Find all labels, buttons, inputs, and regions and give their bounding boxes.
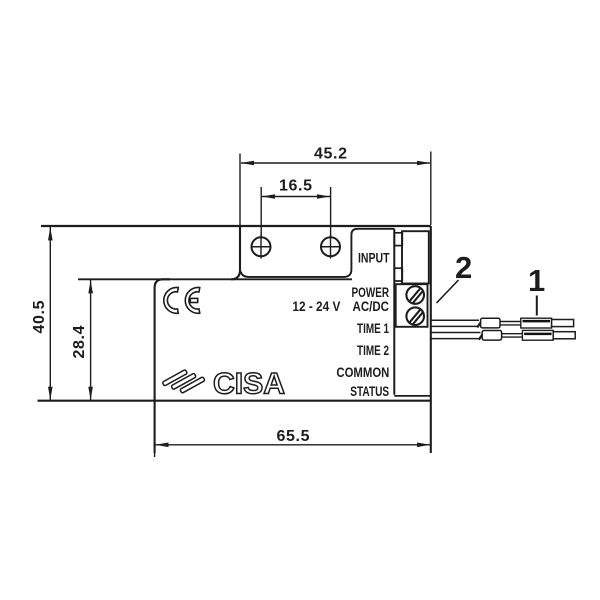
wire 1 break slash: [477, 319, 483, 327]
svg-text:12 - 24 V: 12 - 24 V: [292, 299, 340, 314]
CE mark E bar: [190, 298, 197, 302]
dimension 65.5 arrows: [155, 443, 168, 448]
top edge line with left extension: [41, 225, 431, 227]
CISA flag stripe 3: [180, 377, 205, 394]
svg-text:28.4: 28.4: [71, 325, 88, 358]
dimension 16.5 line: [261, 187, 330, 237]
wire 2 neck: [502, 334, 523, 337]
svg-text:CISA: CISA: [213, 368, 285, 401]
lower body top edge with left extension: [78, 278, 352, 280]
body right edge (extended down as 65.5 extension): [430, 226, 432, 453]
svg-text:INPUT: INPUT: [358, 250, 390, 265]
label column line: [393, 229, 395, 395]
wire 2 break slash: [479, 331, 485, 339]
svg-text:STATUS: STATUS: [350, 384, 389, 399]
dimension 40.5 line: [49, 227, 51, 400]
svg-text:AC/DC: AC/DC: [353, 299, 390, 314]
leader line for label 2: [437, 280, 459, 303]
terminal screw A: [406, 286, 424, 304]
CE mark C: [164, 288, 179, 314]
wire 2 plain segment: [431, 333, 481, 339]
dimension 28.4 line: [90, 280, 92, 400]
wire 1 ferrule: [481, 318, 500, 328]
bottom edge with left extension: [38, 400, 431, 402]
terminal screw B: [406, 307, 424, 325]
terminal block: [396, 284, 428, 327]
svg-text:2: 2: [455, 250, 472, 285]
leader line for label 1: [536, 296, 538, 316]
socket pin bottom: [394, 268, 402, 281]
wire 1 connector dark bar: [523, 320, 551, 323]
socket pin top: [394, 233, 402, 246]
screw hole right: [321, 237, 340, 256]
svg-text:65.5: 65.5: [277, 428, 310, 445]
CISA flag stripe 2: [171, 373, 196, 390]
wire 2 tail: [553, 332, 575, 339]
dimension 16.5 arrows: [262, 194, 275, 199]
screw hole left: [252, 237, 271, 256]
wire 2 ferrule: [482, 331, 501, 341]
dimension 65.5 line: [155, 408, 430, 458]
CE mark E: [185, 288, 200, 314]
wire 2 connector dark bar: [524, 333, 552, 336]
wire 1 neck: [500, 322, 522, 325]
bottom step line: [394, 395, 431, 397]
dimension 45.2 line: [240, 152, 431, 226]
dimension 40.5 arrows: [48, 227, 53, 240]
flange left edge: [231, 226, 240, 279]
svg-text:COMMON: COMMON: [336, 365, 389, 380]
socket rect top right: [402, 231, 429, 283]
CISA flag stripe 1: [162, 369, 187, 386]
wire 1 connector body: [521, 318, 552, 328]
svg-text:1: 1: [528, 263, 545, 298]
wire 2 connector body: [522, 330, 553, 340]
dimension 45.2 arrows: [241, 161, 254, 166]
svg-text:TIME 1: TIME 1: [357, 321, 389, 336]
dimension 28.4 arrows: [88, 280, 93, 293]
wire 1 plain segment: [431, 320, 479, 326]
flange tab bottom edge: [241, 229, 394, 277]
svg-text:TIME 2: TIME 2: [357, 343, 389, 358]
svg-text:45.2: 45.2: [314, 146, 347, 163]
screw hole left centerlines: [251, 246, 272, 248]
svg-text:16.5: 16.5: [279, 178, 312, 195]
wire 1 tail: [552, 320, 574, 327]
lower body left edge: [155, 279, 170, 453]
svg-text:40.5: 40.5: [31, 300, 48, 333]
screw hole right centerlines: [320, 246, 341, 248]
